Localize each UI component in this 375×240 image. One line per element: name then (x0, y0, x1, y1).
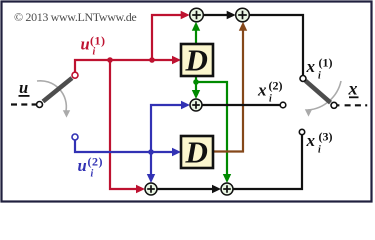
svg-text:(1): (1) (319, 56, 333, 70)
svg-text:x: x (348, 79, 358, 99)
svg-text:(2): (2) (88, 155, 104, 169)
svg-text:u: u (81, 35, 90, 54)
svg-text:u: u (19, 78, 28, 97)
svg-text:i: i (93, 47, 96, 58)
svg-text:i: i (269, 94, 272, 105)
svg-text:i: i (318, 71, 321, 82)
svg-text:(3): (3) (319, 130, 333, 144)
svg-text:x: x (306, 57, 316, 76)
svg-text:© 2013 www.LNTwww.de: © 2013 www.LNTwww.de (14, 10, 136, 24)
svg-text:i: i (91, 169, 94, 180)
svg-text:x: x (306, 131, 316, 150)
svg-text:D: D (185, 42, 208, 77)
svg-text:D: D (185, 134, 208, 169)
svg-text:u: u (78, 156, 87, 175)
svg-text:(2): (2) (269, 79, 283, 93)
svg-text:(1): (1) (90, 33, 106, 47)
svg-text:x: x (257, 81, 267, 100)
svg-text:i: i (318, 145, 321, 156)
